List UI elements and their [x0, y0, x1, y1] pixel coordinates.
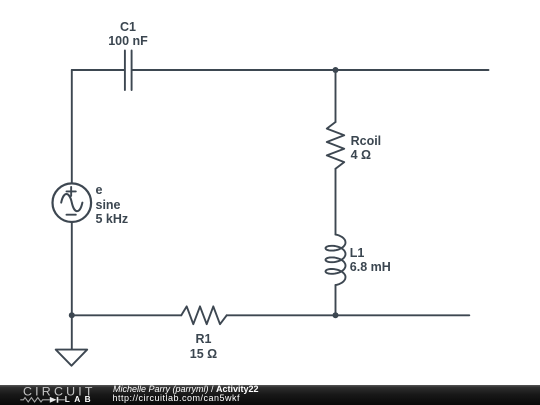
wire: ground stem: [71, 315, 73, 349]
node: top junction: [333, 67, 339, 73]
inductor L1: [326, 235, 346, 286]
resistor R1: [181, 306, 226, 324]
CircuitLab logo: [0, 385, 110, 405]
svg-text:LAB: LAB: [65, 394, 95, 404]
label Rcoil / 4 ohm: [351, 134, 382, 163]
capacitor C1: [125, 51, 132, 91]
label L1 / 6.8 mH: [350, 247, 391, 274]
wire: left vertical from source bottom to bottom rail: [71, 222, 73, 315]
label R1 / 15 ohm: [174, 332, 234, 361]
voltage source e (sine): [53, 183, 92, 222]
attribution line 1: [113, 384, 259, 394]
wire: from L1 bottom to bottom rail: [335, 285, 337, 315]
wire: top-left horizontal from source branch to C1 left plate: [72, 69, 124, 71]
wire: bottom rail right of R1 to open end: [227, 314, 470, 316]
wire: bottom rail left of R1: [72, 314, 182, 316]
resistor Rcoil: [327, 122, 344, 169]
footer bar: [0, 385, 540, 405]
node: bottom-left junction: [69, 312, 75, 318]
label C1: [108, 20, 148, 49]
wire: between Rcoil and L1: [335, 169, 337, 235]
node: bottom junction at L1: [333, 312, 339, 318]
wire: from top junction down to Rcoil: [335, 70, 337, 122]
attribution line 2: [113, 393, 241, 403]
label source e / sine / 5 kHz: [96, 183, 129, 227]
ground: [56, 350, 87, 366]
wire: top horizontal from C1 right plate to open end: [133, 69, 489, 71]
wire: left vertical from top corner to source top: [71, 70, 73, 183]
